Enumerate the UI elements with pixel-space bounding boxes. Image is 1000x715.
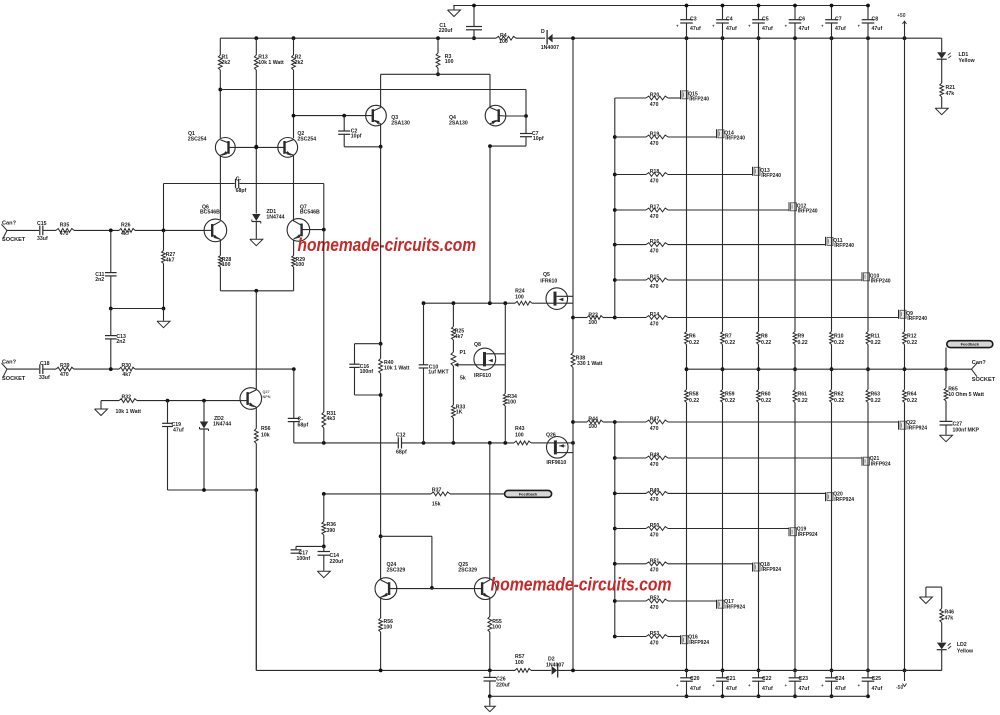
svg-text:Q8: Q8: [474, 342, 481, 348]
svg-text:0.22: 0.22: [725, 340, 735, 346]
svg-text:R39: R39: [60, 363, 70, 369]
svg-text:2SC254: 2SC254: [188, 136, 207, 142]
svg-text:100nf: 100nf: [360, 369, 374, 375]
svg-text:C7: C7: [835, 17, 842, 23]
svg-text:470: 470: [650, 214, 659, 220]
svg-text:IFR610: IFR610: [540, 279, 557, 285]
svg-text:R52: R52: [650, 596, 660, 602]
svg-text:470: 470: [650, 321, 659, 327]
svg-text:D: D: [541, 29, 545, 35]
svg-text:R30: R30: [122, 363, 132, 369]
svg-text:2SA130: 2SA130: [391, 120, 410, 126]
svg-text:33uf: 33uf: [39, 375, 50, 381]
svg-text:C23: C23: [799, 676, 809, 682]
svg-text:R16: R16: [650, 239, 660, 245]
svg-text:2SC329: 2SC329: [458, 568, 477, 574]
svg-text:4k3: 4k3: [327, 416, 336, 422]
svg-text:+: +: [821, 683, 824, 688]
svg-text:470: 470: [650, 284, 659, 290]
svg-text:2k2: 2k2: [222, 60, 231, 66]
svg-text:+: +: [858, 24, 861, 29]
svg-text:0.22: 0.22: [871, 340, 881, 346]
svg-text:0.22: 0.22: [725, 398, 735, 404]
svg-text:R32: R32: [122, 395, 132, 401]
svg-text:SOCKET: SOCKET: [972, 377, 996, 383]
svg-text:470: 470: [650, 497, 659, 503]
svg-text:1N4007: 1N4007: [541, 45, 559, 51]
svg-text:+: +: [712, 683, 715, 688]
svg-text:-50: -50: [896, 685, 903, 691]
svg-text:470: 470: [650, 640, 659, 646]
svg-text:C15: C15: [37, 221, 47, 227]
svg-text:R62: R62: [834, 392, 844, 398]
svg-text:IRFP924: IRFP924: [689, 640, 709, 646]
svg-text:+: +: [785, 683, 788, 688]
svg-text:0.22: 0.22: [871, 398, 881, 404]
svg-text:R20: R20: [650, 93, 660, 99]
svg-text:4k7: 4k7: [122, 372, 131, 378]
svg-text:R17: R17: [650, 205, 660, 211]
svg-text:47uf: 47uf: [726, 26, 737, 32]
svg-text:C5: C5: [762, 17, 769, 23]
svg-text:100: 100: [507, 400, 516, 406]
svg-text:+: +: [858, 683, 861, 688]
svg-text:R48: R48: [650, 453, 660, 459]
svg-text:10k 1 Watt: 10k 1 Watt: [384, 366, 410, 372]
svg-text:470: 470: [60, 231, 69, 237]
svg-text:4k7: 4k7: [455, 334, 464, 340]
svg-text:Q27: Q27: [263, 390, 270, 394]
svg-text:BC546B: BC546B: [200, 210, 220, 216]
svg-text:1N4744: 1N4744: [266, 214, 284, 220]
svg-text:IRFP240: IRFP240: [798, 208, 818, 214]
svg-text:100: 100: [515, 432, 524, 438]
svg-text:R47: R47: [650, 417, 660, 423]
svg-text:470: 470: [650, 102, 659, 108]
svg-text:C-: C-: [298, 416, 304, 422]
svg-text:0.22: 0.22: [761, 398, 771, 404]
svg-text:220uf: 220uf: [439, 28, 453, 34]
svg-text:470: 470: [650, 426, 659, 432]
svg-text:470: 470: [60, 372, 69, 378]
svg-text:IRFP924: IRFP924: [725, 604, 745, 610]
svg-text:470: 470: [650, 605, 659, 611]
svg-text:100: 100: [588, 320, 597, 326]
svg-text:R11: R11: [871, 334, 880, 340]
svg-text:330 1 Watt: 330 1 Watt: [577, 361, 603, 367]
svg-text:R35: R35: [60, 223, 70, 229]
svg-text:10k 1 Watt: 10k 1 Watt: [116, 409, 142, 415]
svg-text:100: 100: [296, 262, 305, 268]
svg-text:0.22: 0.22: [689, 340, 699, 346]
svg-text:33uf: 33uf: [37, 236, 48, 242]
svg-text:2SC254: 2SC254: [297, 136, 316, 142]
svg-text:100: 100: [515, 294, 524, 300]
svg-text:Yellow: Yellow: [957, 648, 974, 654]
svg-text:R14: R14: [650, 312, 660, 318]
svg-text:1K: 1K: [456, 410, 463, 416]
svg-text:+50: +50: [897, 13, 906, 19]
svg-text:Q5: Q5: [543, 272, 550, 278]
svg-text:IRFP240: IRFP240: [725, 135, 745, 141]
svg-text:470: 470: [650, 248, 659, 254]
svg-text:C12: C12: [396, 432, 406, 438]
svg-text:10pf: 10pf: [533, 136, 544, 142]
svg-text:100: 100: [384, 624, 393, 630]
svg-text:47uf: 47uf: [726, 686, 737, 692]
svg-text:0.22: 0.22: [798, 340, 808, 346]
svg-text:IRFP240: IRFP240: [834, 243, 854, 249]
svg-text:C25: C25: [872, 676, 882, 682]
svg-text:R26: R26: [121, 223, 131, 229]
svg-text:R9: R9: [798, 334, 805, 340]
svg-text:2SA130: 2SA130: [449, 120, 468, 126]
svg-text:BC546B: BC546B: [300, 210, 320, 216]
svg-text:1N4007: 1N4007: [546, 662, 564, 668]
svg-text:47uf: 47uf: [762, 26, 773, 32]
svg-text:Can?: Can?: [2, 221, 17, 227]
svg-text:Yellow: Yellow: [959, 58, 976, 64]
svg-text:100: 100: [445, 59, 454, 65]
svg-text:IRFP924: IRFP924: [798, 532, 818, 538]
svg-text:IRF610: IRF610: [474, 373, 491, 379]
svg-text:SOCKET: SOCKET: [2, 376, 26, 382]
svg-text:220uf: 220uf: [330, 559, 344, 565]
svg-text:R51: R51: [650, 558, 660, 564]
svg-text:47uf: 47uf: [762, 686, 773, 692]
svg-text:47uf: 47uf: [872, 686, 883, 692]
svg-text:470: 470: [650, 532, 659, 538]
svg-text:R56: R56: [261, 426, 271, 432]
svg-text:+: +: [748, 683, 751, 688]
svg-text:C3: C3: [690, 17, 697, 23]
svg-text:1uf MKT: 1uf MKT: [428, 369, 449, 375]
svg-text:5k: 5k: [460, 375, 466, 381]
svg-text:100nf: 100nf: [297, 556, 311, 562]
svg-text:C4: C4: [726, 17, 733, 23]
svg-text:+: +: [821, 24, 824, 29]
svg-text:R19: R19: [650, 132, 660, 138]
svg-text:R37: R37: [432, 488, 442, 494]
svg-text:IRFP240: IRFP240: [689, 96, 709, 102]
svg-text:C24: C24: [835, 676, 845, 682]
svg-text:R60: R60: [761, 392, 771, 398]
svg-text:NPN: NPN: [263, 395, 271, 399]
svg-text:C21: C21: [726, 676, 736, 682]
svg-text:47k: 47k: [945, 615, 954, 621]
svg-text:0.22: 0.22: [689, 398, 699, 404]
svg-text:100: 100: [588, 424, 597, 430]
svg-text:47uf: 47uf: [835, 686, 846, 692]
svg-text:P1: P1: [460, 350, 466, 356]
svg-text:+: +: [676, 683, 679, 688]
svg-text:Can?: Can?: [972, 360, 987, 366]
svg-text:10 Ohm 5 Watt: 10 Ohm 5 Watt: [948, 392, 984, 398]
svg-text:390: 390: [327, 528, 336, 534]
svg-text:2k2: 2k2: [295, 60, 304, 66]
svg-text:68pf: 68pf: [298, 423, 309, 429]
svg-text:4k7: 4k7: [166, 257, 175, 263]
svg-text:47uf: 47uf: [690, 686, 701, 692]
svg-text:2n2: 2n2: [95, 277, 104, 283]
svg-text:0.22: 0.22: [834, 340, 844, 346]
svg-text:R58: R58: [689, 392, 699, 398]
svg-text:47uf: 47uf: [835, 26, 846, 32]
svg-text:100nf MKP: 100nf MKP: [953, 428, 980, 434]
svg-text:100: 100: [515, 660, 524, 666]
svg-text:47uf: 47uf: [799, 26, 810, 32]
svg-text:R59: R59: [725, 392, 735, 398]
svg-text:100: 100: [499, 39, 508, 45]
svg-text:IRFP924: IRFP924: [871, 461, 891, 467]
svg-text:R63: R63: [871, 392, 881, 398]
svg-text:R61: R61: [798, 392, 808, 398]
svg-text:+: +: [748, 24, 751, 29]
svg-text:+: +: [785, 24, 788, 29]
svg-text:100: 100: [492, 624, 501, 630]
svg-text:0.22: 0.22: [798, 398, 808, 404]
svg-text:IRFP240: IRFP240: [871, 278, 891, 284]
svg-text:0.22: 0.22: [761, 340, 771, 346]
svg-text:470: 470: [650, 178, 659, 184]
svg-text:R18: R18: [650, 169, 660, 175]
svg-text:R10: R10: [834, 334, 844, 340]
svg-text:R57: R57: [515, 654, 525, 660]
svg-text:+: +: [676, 24, 679, 29]
svg-text:C20: C20: [690, 676, 700, 682]
svg-text:4k7: 4k7: [121, 231, 130, 237]
svg-text:2SC329: 2SC329: [387, 568, 406, 574]
svg-text:10k: 10k: [261, 433, 270, 439]
svg-text:homemade-circuits.com: homemade-circuits.com: [491, 574, 672, 595]
svg-text:47uf: 47uf: [872, 26, 883, 32]
svg-text:IRF9610: IRF9610: [546, 460, 566, 466]
svg-text:R53: R53: [650, 631, 660, 637]
svg-text:0.22: 0.22: [834, 398, 844, 404]
svg-text:R50: R50: [650, 523, 660, 529]
svg-text:10pf: 10pf: [351, 133, 362, 139]
svg-text:R15: R15: [650, 275, 660, 281]
svg-text:R8: R8: [761, 334, 768, 340]
svg-text:SOCKET: SOCKET: [2, 237, 26, 243]
svg-text:68pf: 68pf: [396, 450, 407, 456]
svg-text:47k: 47k: [946, 91, 955, 97]
svg-text:68pf: 68pf: [236, 188, 247, 194]
svg-text:IRFP240: IRFP240: [907, 316, 927, 322]
svg-text:R43: R43: [515, 426, 525, 432]
svg-text:R7: R7: [725, 334, 732, 340]
svg-text:0.22: 0.22: [907, 340, 917, 346]
svg-text:470: 470: [650, 141, 659, 147]
svg-text:0.22: 0.22: [907, 398, 917, 404]
svg-text:R22: R22: [588, 313, 598, 319]
svg-text:C-: C-: [236, 177, 242, 183]
svg-text:Feedback: Feedback: [519, 491, 538, 496]
svg-text:IRFP240: IRFP240: [761, 173, 781, 179]
svg-text:220uf: 220uf: [496, 682, 510, 688]
svg-text:Can?: Can?: [2, 359, 17, 365]
svg-text:C6: C6: [799, 17, 806, 23]
svg-text:47uf: 47uf: [690, 26, 701, 32]
svg-text:R6: R6: [689, 334, 696, 340]
svg-text:15k: 15k: [432, 502, 441, 508]
svg-text:LD2: LD2: [957, 642, 967, 648]
svg-text:C8: C8: [872, 17, 879, 23]
svg-text:100: 100: [222, 262, 231, 268]
svg-text:IRFP924: IRFP924: [761, 567, 781, 573]
svg-text:R44: R44: [588, 416, 598, 422]
svg-text:10k 1 Watt: 10k 1 Watt: [258, 60, 284, 66]
svg-text:IRFP924: IRFP924: [834, 497, 854, 503]
svg-text:1N4744: 1N4744: [213, 422, 231, 428]
svg-text:Q26: Q26: [546, 433, 556, 439]
svg-text:R64: R64: [907, 392, 917, 398]
svg-text:R12: R12: [907, 334, 917, 340]
svg-text:R49: R49: [650, 488, 660, 494]
svg-text:2n2: 2n2: [116, 339, 125, 345]
svg-text:IRFP924: IRFP924: [907, 425, 927, 431]
svg-text:470: 470: [650, 462, 659, 468]
svg-text:47uf: 47uf: [173, 427, 184, 433]
svg-text:47uf: 47uf: [799, 686, 810, 692]
svg-text:Feedback: Feedback: [961, 342, 980, 347]
svg-text:+: +: [712, 24, 715, 29]
svg-text:C18: C18: [40, 361, 50, 367]
svg-text:C22: C22: [762, 676, 772, 682]
